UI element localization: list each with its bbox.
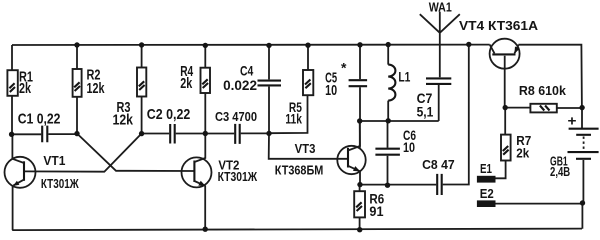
svg-text:VT1: VT1 (43, 153, 65, 168)
inductor L1 (388, 45, 410, 121)
node dot top rail C5 (357, 42, 362, 47)
node dot R4 / VT2 collector (203, 131, 208, 136)
svg-text:E2: E2 (480, 186, 494, 201)
svg-text:WA1: WA1 (429, 0, 452, 15)
node dot top rail C4 (266, 43, 271, 48)
resistor R6 (354, 185, 384, 230)
wire bottom ground rail (12, 229, 582, 231)
svg-text:10: 10 (403, 139, 415, 155)
svg-text:2k: 2k (19, 80, 31, 97)
node dot C5 / VT3 collector (357, 118, 362, 123)
node dot top rail L1 (386, 42, 391, 47)
wire VT3 base from C3/C4 node (269, 133, 348, 158)
wire VT3 emitter node line with riser to top rail (360, 44, 469, 184)
contact E1 (477, 161, 496, 183)
transistor VT3 (275, 121, 366, 185)
svg-text:КТ301Ж: КТ301Ж (218, 169, 258, 184)
node dot C6 bottom (385, 183, 390, 188)
svg-text:0.022: 0.022 (223, 77, 257, 93)
node dot top rail R5 (305, 43, 310, 48)
capacitor C5 (325, 45, 367, 121)
svg-text:2,4В: 2,4В (550, 164, 570, 179)
svg-text:*: * (341, 60, 347, 76)
node dot bottom rail VT2 emitter (203, 227, 208, 232)
resistor R2 (73, 67, 105, 97)
svg-text:C2 0,22: C2 0,22 (147, 106, 191, 123)
wire cross-coupling C1/R2 node to VT2 base (77, 134, 194, 172)
node dot VT4 base / R8 left / R7 (503, 105, 508, 110)
node dot top rail R2 (74, 42, 79, 47)
node dot bottom rail R6 (357, 227, 362, 232)
contact E2 (477, 186, 583, 207)
wire R3 column (141, 45, 143, 134)
svg-text:12k: 12k (87, 80, 105, 97)
resistor R8 (505, 83, 582, 112)
capacitor C8 (422, 157, 455, 195)
transistor VT2 (182, 134, 258, 230)
svg-text:2k: 2k (180, 75, 192, 92)
node dot C1 right / R2 bottom (74, 131, 79, 136)
svg-text:2k: 2k (516, 146, 530, 161)
node dot top rail R3 (139, 42, 144, 47)
svg-text:91: 91 (369, 203, 383, 219)
svg-text:C4: C4 (240, 62, 253, 78)
node dot top rail R4 (203, 43, 208, 48)
wire VT3 collector lead (359, 121, 361, 149)
svg-text:C8 47: C8 47 (422, 157, 455, 172)
wire top rail right segment to battery column (518, 45, 582, 108)
resistor R3 (113, 68, 147, 129)
svg-text:VT4 КТ361А: VT4 КТ361А (459, 18, 539, 33)
svg-text:R8 610k: R8 610k (519, 83, 567, 98)
svg-text:C1 0,22: C1 0,22 (18, 110, 61, 127)
transistor VT4 (459, 18, 539, 108)
node dot C1 left / VT1 collector (9, 132, 14, 137)
wire left column R1 top lead (11, 45, 13, 70)
svg-text:КТ368БМ: КТ368БМ (275, 163, 324, 178)
svg-text:5,1: 5,1 (417, 104, 434, 120)
node dot C2 left / R3 bottom (139, 131, 144, 136)
capacitor C6 (375, 121, 416, 185)
resistor R5 (269, 46, 313, 133)
svg-text:КТ301Ж: КТ301Ж (41, 176, 79, 191)
wire top supply rail (12, 44, 490, 46)
resistor R4 (180, 63, 210, 93)
transistor VT1 (5, 134, 79, 230)
svg-text:C3 4700: C3 4700 (215, 109, 257, 124)
svg-text:L1: L1 (398, 69, 410, 85)
capacitor C1 (11, 110, 77, 142)
capacitor C2 (142, 106, 206, 144)
node dot C3 / C4 / R5 / VT3 base (266, 131, 271, 136)
svg-text:VT3: VT3 (295, 141, 316, 156)
svg-text:10: 10 (325, 82, 337, 99)
svg-text:11k: 11k (285, 111, 302, 127)
svg-text:+: + (568, 113, 577, 129)
antenna WA1 (420, 0, 460, 77)
node dot R8 right / battery plus (579, 105, 584, 110)
capacitor C3 (205, 109, 269, 144)
svg-text:E1: E1 (480, 161, 492, 176)
resistor R1 (7, 68, 33, 97)
capacitor C7 (417, 78, 452, 121)
wire cross-coupling C2/R3 node to VT1 base (25, 134, 142, 172)
node dot top rail C8 riser (466, 42, 471, 47)
battery GB1 (550, 108, 599, 229)
svg-text:12k: 12k (113, 112, 134, 129)
wire R4 column (204, 46, 206, 134)
wire R1 bottom lead to node (11, 96, 13, 135)
wire R2 column (76, 45, 78, 134)
wire collector tank node y=121 (360, 120, 439, 122)
resistor R7 (495, 108, 531, 179)
node dot L1 bottom (386, 118, 391, 123)
node dot VT3 emitter / R6 (357, 182, 362, 187)
node dot E2 / battery minus (580, 200, 585, 205)
capacitor C4 (223, 46, 281, 134)
